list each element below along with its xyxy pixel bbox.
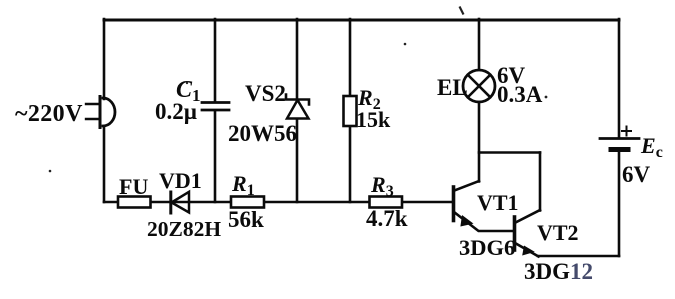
wire: right vertical lower — [618, 152, 621, 256]
svg-text:R1: R1 — [231, 171, 255, 199]
svg-text:4.7k: 4.7k — [366, 206, 408, 231]
wire: emitter to battery bottom — [538, 255, 619, 258]
fuse FU — [118, 197, 151, 208]
wire: top rail — [104, 19, 619, 22]
svg-text:FU: FU — [119, 174, 148, 199]
svg-text:3DG6: 3DG6 — [459, 235, 515, 260]
scan speck marks — [49, 7, 548, 173]
wire: vertical to VT2 collector — [539, 153, 542, 211]
capacitor C1 — [202, 19, 229, 202]
wire: left vertical lower — [103, 126, 106, 202]
wire: right vertical upper — [618, 19, 621, 138]
svg-text:~220V: ~220V — [15, 101, 83, 127]
diode VD1 — [171, 192, 189, 213]
svg-text:20W56: 20W56 — [228, 121, 297, 146]
zener diode VS2 — [286, 19, 309, 202]
wire: left vertical upper — [103, 19, 106, 99]
resistor R2 — [344, 19, 357, 202]
transistor VT2 — [515, 210, 541, 257]
svg-text:VT2: VT2 — [537, 220, 579, 245]
battery Ec — [600, 127, 639, 150]
svg-text:VD1: VD1 — [159, 168, 202, 193]
resistor R3 — [370, 197, 403, 208]
svg-text:0.3A: 0.3A — [497, 82, 543, 107]
svg-text:15k: 15k — [356, 107, 391, 132]
wire: collector junction horizontal — [479, 151, 540, 154]
svg-text:Ec: Ec — [640, 133, 663, 161]
svg-text:VT1: VT1 — [477, 190, 519, 215]
wire: bottom rail to VT1 base — [104, 201, 453, 204]
svg-text:0.2µ: 0.2µ — [155, 99, 197, 124]
lamp EL — [463, 19, 495, 182]
svg-text:6V: 6V — [622, 162, 651, 187]
svg-text:R3: R3 — [370, 172, 394, 200]
svg-text:20Z82H: 20Z82H — [147, 217, 221, 241]
svg-text:EL: EL — [437, 75, 468, 100]
svg-text:56k: 56k — [228, 207, 264, 232]
resistor R1 — [231, 197, 264, 208]
svg-text:3DG12: 3DG12 — [524, 259, 593, 284]
AC source plug symbol — [86, 97, 115, 128]
transistor VT1 — [454, 181, 515, 231]
svg-text:VS2: VS2 — [245, 81, 286, 106]
